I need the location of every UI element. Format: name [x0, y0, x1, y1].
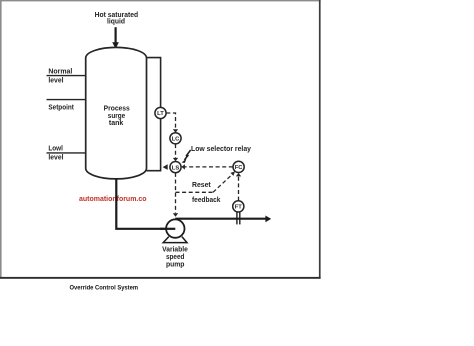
signal LT to LC (dashed) — [166, 113, 178, 133]
instrument LT (level transmitter) — [155, 107, 166, 118]
svg-text:surge: surge — [108, 113, 125, 120]
svg-text:Low selector relay: Low selector relay — [191, 146, 251, 153]
pump discharge pipe with arrow — [175, 216, 271, 223]
svg-text:level: level — [48, 77, 63, 84]
signal FT to FC (dashed) — [236, 173, 241, 201]
signal LC to LS (dashed) — [173, 144, 178, 161]
label "Normal level" — [48, 68, 72, 84]
tank label — [104, 105, 130, 127]
reset feedback signal (dashed) — [176, 171, 236, 192]
tank T1 (process surge tank) — [86, 47, 147, 179]
level gauge standpipe — [147, 58, 161, 171]
pump label — [162, 246, 188, 268]
frame bottom border — [0, 277, 321, 279]
frame left border — [0, 0, 2, 278]
instrument LC (level controller) — [170, 133, 181, 144]
svg-text:FT: FT — [235, 205, 243, 211]
instrument LS (low selector relay) — [170, 162, 181, 173]
svg-text:LS: LS — [172, 165, 180, 171]
svg-text:automationforum.co: automationforum.co — [79, 194, 147, 203]
svg-text:Override Control System: Override Control System — [70, 285, 139, 292]
svg-text:pump: pump — [166, 261, 185, 268]
svg-text:Variable: Variable — [162, 246, 188, 253]
svg-text:Normal: Normal — [48, 68, 72, 75]
zigzag annotation arrow to LS — [182, 150, 191, 163]
svg-text:Setpoint: Setpoint — [48, 104, 74, 111]
svg-text:Reset: Reset — [192, 182, 211, 189]
pump P1 (variable speed pump) — [160, 219, 187, 242]
signal FC to LS (dashed) — [181, 164, 232, 169]
frame top border — [0, 0, 321, 1]
arrowhead from LS toward tank standpipe — [163, 164, 168, 170]
low level marker line — [47, 152, 86, 154]
frame right border — [319, 0, 321, 279]
normal level marker line — [47, 75, 86, 77]
feed label "Hot saturated liquid" — [95, 12, 139, 26]
svg-text:level: level — [48, 155, 63, 162]
orifice plate taps at FT — [237, 212, 240, 224]
svg-text:FC: FC — [235, 165, 244, 171]
instrument FC (flow controller) — [233, 161, 244, 172]
pump suction pipe from tank bottom — [116, 178, 174, 229]
svg-text:liquid: liquid — [107, 19, 125, 26]
svg-text:LT: LT — [157, 111, 164, 117]
feed pipe arrow into tank — [112, 27, 119, 48]
setpoint marker line — [47, 99, 86, 101]
label "Lowl level" — [48, 146, 63, 162]
svg-text:Lowl: Lowl — [48, 146, 63, 153]
annotation "Reset feedback" — [192, 182, 220, 204]
instrument FT (flow transmitter) — [233, 201, 244, 212]
svg-text:feedback: feedback — [192, 197, 220, 204]
svg-text:Process: Process — [104, 105, 130, 112]
svg-text:speed: speed — [166, 254, 185, 261]
svg-text:tank: tank — [109, 120, 124, 127]
signal LS to pump (dashed) — [173, 173, 178, 217]
svg-text:LC: LC — [172, 137, 181, 143]
